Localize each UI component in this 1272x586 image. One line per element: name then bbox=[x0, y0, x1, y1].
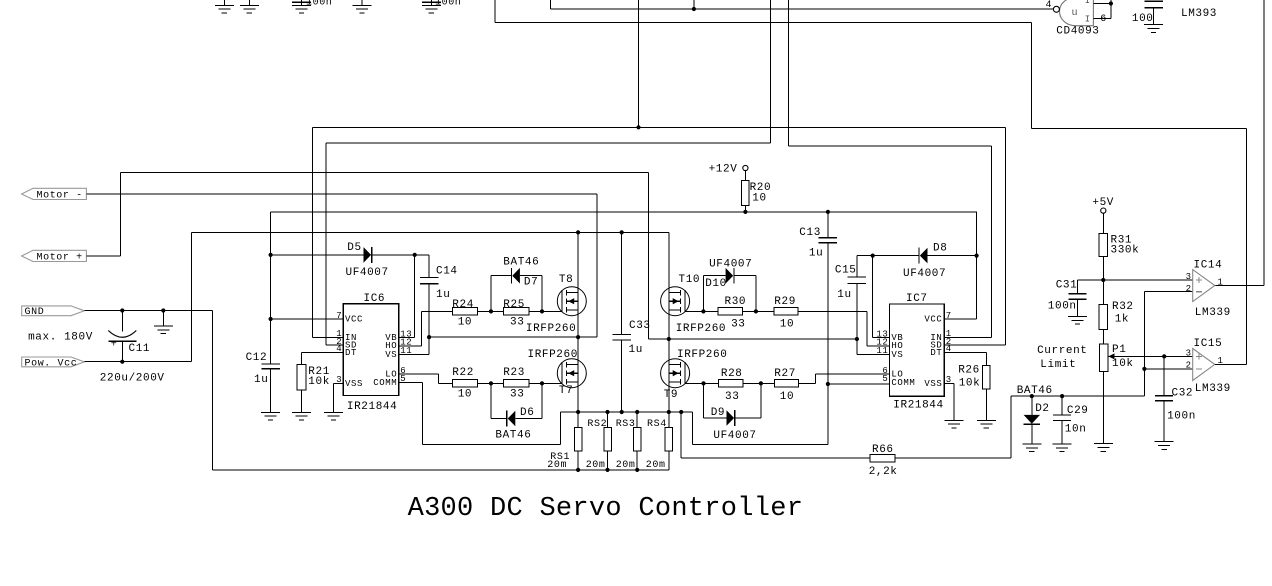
junction D2 top bbox=[1030, 394, 1034, 398]
label + of C11 bbox=[111, 340, 118, 351]
label T7 bbox=[559, 385, 573, 397]
wire IC7 DT to R26 bbox=[944, 352, 986, 365]
svg-text:100n: 100n bbox=[435, 0, 461, 8]
wire T10 gate to R30 bbox=[685, 310, 718, 312]
svg-text:R22: R22 bbox=[452, 367, 474, 379]
junction D10 right bbox=[754, 309, 758, 313]
wire IC6 VSS to ground bbox=[324, 383, 343, 420]
pin number 6 (gate input) bbox=[1100, 14, 1107, 25]
label UF4007 (D8) bbox=[903, 268, 946, 280]
svg-text:2,2k: 2,2k bbox=[869, 466, 898, 478]
label D6 bbox=[520, 407, 534, 419]
capacitor C11 electrolytic bbox=[108, 311, 136, 362]
resistor R27 bbox=[774, 380, 798, 387]
wire T8 drain bbox=[577, 232, 579, 292]
wire COMM right return bbox=[681, 412, 828, 444]
wire T10 source to rail bbox=[668, 310, 670, 339]
svg-text:VSS: VSS bbox=[345, 379, 363, 389]
label 100n top 3 bbox=[306, 0, 332, 8]
gate input marks I bbox=[1085, 0, 1090, 24]
diode D2 BAT46 bbox=[1022, 396, 1041, 452]
svg-text:R26: R26 bbox=[958, 364, 980, 376]
wire comparator output loop bbox=[495, 0, 1246, 364]
junction VB riser bbox=[413, 253, 417, 257]
svg-text:C31: C31 bbox=[1056, 279, 1078, 291]
IC14 pin numbers bbox=[1186, 272, 1224, 294]
svg-text:C12: C12 bbox=[246, 352, 268, 364]
svg-text:A300 DC Servo Controller: A300 DC Servo Controller bbox=[408, 494, 804, 524]
label R27 bbox=[774, 368, 796, 380]
svg-text:IC14: IC14 bbox=[1194, 259, 1223, 271]
wire D8 cathode side bbox=[857, 255, 919, 257]
label Motor + bbox=[37, 252, 83, 263]
label 20m (RS4) bbox=[646, 460, 666, 471]
capacitor C12 bbox=[261, 319, 280, 420]
label 20m (RS1) bbox=[547, 460, 567, 471]
label BAT46 (D2) bbox=[1017, 385, 1053, 397]
svg-text:2: 2 bbox=[1186, 284, 1192, 294]
gate inner label u bbox=[1072, 8, 1079, 19]
svg-text:R25: R25 bbox=[503, 299, 525, 311]
svg-text:VS: VS bbox=[891, 350, 903, 360]
wire divider to IC14+ bbox=[1103, 279, 1192, 281]
wire limit node riser bbox=[1143, 292, 1145, 396]
ground symbol top 2 bbox=[240, 0, 259, 13]
svg-text:IR21844: IR21844 bbox=[893, 400, 943, 412]
label IRFP260 (T8) bbox=[526, 323, 576, 335]
svg-text:1u: 1u bbox=[837, 289, 851, 301]
capacitor C29 bbox=[1053, 396, 1072, 452]
title text bbox=[408, 494, 804, 524]
svg-text:R28: R28 bbox=[721, 368, 743, 380]
label 33 (R25) bbox=[510, 317, 524, 329]
wire vertical from top to IN/SD rail bbox=[638, 0, 640, 127]
svg-text:T9: T9 bbox=[664, 389, 678, 401]
svg-text:1u: 1u bbox=[436, 289, 450, 301]
label C13 bbox=[799, 227, 821, 239]
resistor R25 bbox=[503, 308, 529, 315]
junction D10 left bbox=[701, 309, 705, 313]
label 1u (C13) bbox=[809, 247, 823, 259]
svg-text:1: 1 bbox=[1218, 277, 1224, 287]
label IRFP260 (T9) bbox=[677, 349, 727, 361]
transistor T9 IRFP260 bbox=[661, 359, 690, 388]
junction divider node bbox=[1101, 278, 1105, 282]
svg-text:IC6: IC6 bbox=[364, 293, 386, 305]
label R24 bbox=[452, 299, 474, 311]
junction IC7 COMM bbox=[826, 382, 830, 386]
label RS2 bbox=[587, 419, 607, 430]
label +5V bbox=[1092, 197, 1114, 209]
svg-text:IRFP260: IRFP260 bbox=[676, 323, 726, 335]
label 10k (R26) bbox=[959, 378, 981, 390]
svg-text:UF4007: UF4007 bbox=[709, 258, 752, 270]
resistor R20 bbox=[742, 171, 750, 212]
label R28 bbox=[721, 368, 743, 380]
svg-text:1u: 1u bbox=[629, 344, 643, 356]
wire IC14 output to top bbox=[1215, 0, 1264, 286]
label 33 (R30) bbox=[731, 318, 745, 330]
svg-text:UF4007: UF4007 bbox=[713, 430, 756, 442]
label P1 bbox=[1112, 344, 1126, 356]
svg-text:IRFP260: IRFP260 bbox=[528, 349, 578, 361]
IC6 pin names right bbox=[373, 333, 397, 388]
svg-text:3: 3 bbox=[1186, 272, 1192, 282]
svg-text:R30: R30 bbox=[725, 296, 747, 308]
wire IC6-IN to IC7-SD rail bbox=[312, 127, 1005, 345]
label UF4007 (D5) bbox=[346, 267, 389, 279]
terminal +5V bbox=[1101, 208, 1106, 213]
junction C14 to VS node bbox=[427, 335, 431, 339]
svg-text:UF4007: UF4007 bbox=[903, 268, 946, 280]
svg-text:R29: R29 bbox=[774, 296, 796, 308]
capacitor C15 bbox=[848, 256, 867, 339]
svg-text:C33: C33 bbox=[629, 320, 651, 332]
label 10 (R22) bbox=[458, 389, 472, 401]
label D10 bbox=[705, 278, 727, 290]
junction T8 drain bbox=[576, 230, 580, 234]
resistor R66 bbox=[870, 455, 895, 462]
svg-text:BAT46: BAT46 bbox=[503, 257, 539, 269]
resistor R22 bbox=[452, 380, 477, 387]
svg-text:VCC: VCC bbox=[345, 314, 363, 324]
gate U1 CD4093 (mirrored NAND) bbox=[1053, 0, 1093, 26]
resistor R21 bbox=[292, 364, 311, 420]
potentiometer P1 bbox=[1094, 344, 1193, 452]
label IC7 bbox=[906, 293, 928, 305]
resistor RS3 bbox=[633, 412, 641, 470]
svg-text:T8: T8 bbox=[559, 274, 573, 286]
svg-text:1k: 1k bbox=[1115, 313, 1129, 325]
svg-text:RS2: RS2 bbox=[587, 419, 607, 430]
label R23 bbox=[503, 367, 525, 379]
wire IC6 LO bbox=[399, 374, 453, 383]
label 330k (R31) bbox=[1111, 245, 1140, 257]
diode D9 UF4007 branch bbox=[704, 383, 761, 426]
svg-text:Pow. Vcc: Pow. Vcc bbox=[25, 358, 78, 369]
label RS1 bbox=[550, 452, 570, 463]
svg-text:max. 180V: max. 180V bbox=[28, 332, 93, 344]
svg-text:33: 33 bbox=[510, 317, 524, 329]
wire R66 to limit node bbox=[895, 396, 1144, 458]
label 1u (C14) bbox=[436, 289, 450, 301]
junction sense to R66 bbox=[679, 410, 683, 414]
svg-text:20m: 20m bbox=[586, 460, 606, 471]
wire IC7 VSS to ground bbox=[944, 383, 963, 428]
label 20m (RS2) bbox=[586, 460, 606, 471]
svg-text:Motor +: Motor + bbox=[37, 252, 83, 263]
label LM393 bbox=[1181, 8, 1217, 20]
junction RS3 bottom bbox=[635, 468, 639, 472]
capacitor plate + ground top 3 bbox=[292, 0, 311, 13]
diode D6 BAT46 branch bbox=[491, 383, 542, 426]
svg-text:D7: D7 bbox=[524, 276, 538, 288]
svg-text:33: 33 bbox=[731, 318, 745, 330]
junction RS2 top bbox=[605, 410, 609, 414]
junction D6 left bbox=[489, 381, 493, 385]
label C32 bbox=[1172, 387, 1194, 399]
svg-text:D6: D6 bbox=[520, 407, 534, 419]
resistor R24 bbox=[452, 308, 477, 315]
junction RS2 bottom bbox=[605, 468, 609, 472]
transistor T7 IRFP260 bbox=[557, 359, 586, 388]
label D9 bbox=[711, 407, 725, 419]
svg-text:CD4093: CD4093 bbox=[1056, 26, 1099, 38]
resistor R26 bbox=[977, 366, 996, 428]
wire IC15 minus bbox=[1144, 368, 1192, 370]
wire right switch rail bbox=[669, 338, 857, 340]
resistor RS4 bbox=[665, 412, 673, 470]
svg-text:GND: GND bbox=[25, 307, 45, 318]
label UF4007 (D10) bbox=[709, 258, 752, 270]
label R26 bbox=[958, 364, 980, 376]
label GND bbox=[25, 307, 45, 318]
svg-text:C32: C32 bbox=[1172, 387, 1194, 399]
junction D9 left bbox=[701, 381, 705, 385]
terminal +12V bbox=[743, 165, 748, 170]
wire VB riser IC7 bbox=[873, 256, 890, 338]
label IR21844 (IC7) bbox=[893, 400, 943, 412]
connector Motor + bbox=[22, 250, 87, 261]
svg-text:C14: C14 bbox=[436, 265, 458, 277]
svg-text:BAT46: BAT46 bbox=[495, 429, 531, 441]
capacitor plate + ground top 5 bbox=[422, 0, 441, 13]
svg-text:100n: 100n bbox=[1048, 301, 1077, 313]
wire T8 source to rail bbox=[577, 310, 579, 337]
junction C33 bottom bbox=[620, 410, 624, 414]
svg-text:LM339: LM339 bbox=[1195, 307, 1231, 319]
label CD4093 bbox=[1056, 26, 1099, 38]
label 100 bbox=[1132, 13, 1154, 25]
label C12 bbox=[246, 352, 268, 364]
wire R29 to IC7 HO bbox=[798, 311, 889, 345]
capacitor C13 bbox=[819, 212, 838, 445]
junction D7 right bbox=[540, 309, 544, 313]
svg-text:COMM: COMM bbox=[373, 378, 397, 388]
wire R25 to T8 gate bbox=[529, 310, 562, 312]
IC6 pin names left bbox=[345, 314, 363, 388]
svg-text:10: 10 bbox=[780, 391, 794, 403]
svg-text:4: 4 bbox=[1046, 0, 1053, 11]
junction IC15 minus bbox=[1142, 367, 1146, 371]
label RS3 bbox=[616, 419, 636, 430]
label Motor - bbox=[37, 190, 83, 201]
label R31 bbox=[1111, 234, 1133, 246]
wire IC7 VCC bbox=[944, 318, 976, 320]
label 1u (C15) bbox=[837, 289, 851, 301]
label IC6 bbox=[364, 293, 386, 305]
svg-text:20m: 20m bbox=[547, 460, 567, 471]
svg-text:VCC: VCC bbox=[924, 314, 942, 324]
svg-text:D5: D5 bbox=[347, 242, 361, 254]
svg-text:DT: DT bbox=[930, 348, 942, 358]
label R22 bbox=[452, 367, 474, 379]
svg-text:BAT46: BAT46 bbox=[1017, 385, 1053, 397]
svg-text:IR21844: IR21844 bbox=[347, 401, 397, 413]
connector Motor - bbox=[22, 188, 87, 199]
IC7 pin numbers right bbox=[946, 311, 952, 385]
junction T10 source bbox=[667, 337, 671, 341]
svg-text:D9: D9 bbox=[711, 407, 725, 419]
wire T7 drain bbox=[577, 337, 579, 364]
svg-text:IRFP260: IRFP260 bbox=[677, 349, 727, 361]
resistor RS1 bbox=[574, 412, 582, 470]
junction gate input tie bbox=[1109, 1, 1113, 5]
svg-text:100: 100 bbox=[1132, 13, 1154, 25]
svg-text:R32: R32 bbox=[1112, 301, 1134, 313]
label C33 bbox=[629, 320, 651, 332]
wire IC6 DT to R21 bbox=[301, 352, 343, 364]
svg-text:VSS: VSS bbox=[924, 379, 942, 389]
capacitor C14 bbox=[420, 255, 439, 337]
svg-text:R66: R66 bbox=[872, 444, 894, 456]
svg-text:LM393: LM393 bbox=[1181, 8, 1217, 20]
label R20 bbox=[750, 182, 772, 194]
wire sense bottom rail (GND) bbox=[213, 469, 669, 471]
svg-text:I: I bbox=[1085, 0, 1090, 6]
wire R30 to R29 bbox=[743, 310, 774, 312]
label C11 bbox=[129, 343, 151, 355]
label R30 bbox=[725, 296, 747, 308]
svg-text:D8: D8 bbox=[933, 243, 947, 255]
wire IC6-SD rail bbox=[326, 0, 770, 345]
ground at GND rail bbox=[154, 311, 173, 334]
wire R22 to R23 bbox=[478, 382, 504, 384]
wire IC6 VS bbox=[399, 337, 429, 354]
resistor R30 bbox=[718, 308, 742, 315]
wire D5 anode bbox=[271, 254, 364, 256]
label BAT46 (D6) bbox=[495, 429, 531, 441]
wire HV+ rail bbox=[192, 231, 669, 233]
label Current bbox=[1037, 345, 1087, 357]
wire gate output rail bbox=[550, 0, 1053, 9]
svg-text:10n: 10n bbox=[1065, 423, 1087, 435]
label 10n (C29) bbox=[1065, 423, 1087, 435]
label max. 180V bbox=[28, 332, 93, 344]
diode D10 UF4007 branch bbox=[703, 268, 756, 312]
svg-text:100n: 100n bbox=[306, 0, 332, 8]
op-amp IC14 LM339 bbox=[1193, 270, 1215, 302]
wire sense node to R66 bbox=[681, 412, 870, 458]
IC7 pin names right bbox=[924, 314, 942, 388]
wire IC14 minus bbox=[1144, 291, 1192, 293]
IC7 pin names left bbox=[891, 333, 915, 388]
connector GND bbox=[22, 306, 85, 316]
junction D9 right bbox=[759, 381, 763, 385]
wire R28 to R27 bbox=[743, 382, 775, 384]
svg-text:C29: C29 bbox=[1067, 405, 1089, 417]
svg-text:5: 5 bbox=[882, 374, 888, 384]
junction on IN/SD rail bbox=[636, 125, 640, 129]
label 10 (R27) bbox=[780, 391, 794, 403]
label 2,2k (R66) bbox=[869, 466, 898, 478]
svg-text:20m: 20m bbox=[616, 460, 636, 471]
svg-text:10: 10 bbox=[458, 389, 472, 401]
label D8 bbox=[933, 243, 947, 255]
junction D8 anode bbox=[975, 254, 979, 258]
label 100n (C31) bbox=[1048, 301, 1077, 313]
junction RS4 top bbox=[667, 410, 671, 414]
svg-text:u: u bbox=[1072, 8, 1079, 19]
wire Pow.Vcc rail bbox=[84, 232, 191, 361]
label 1u (C12) bbox=[254, 374, 268, 386]
svg-text:3: 3 bbox=[1186, 349, 1192, 359]
junction C13 top bbox=[826, 210, 830, 214]
wire IC7-IN rail bbox=[788, 0, 991, 337]
capacitor C32 bbox=[1155, 356, 1174, 449]
wire Motor + to bridge bbox=[86, 172, 668, 339]
label C15 bbox=[835, 265, 857, 277]
wire +12V rail bbox=[271, 212, 977, 319]
pin number 4 (gate output) bbox=[1046, 0, 1053, 11]
svg-text:VS: VS bbox=[385, 350, 397, 360]
label 100n top 5 bbox=[435, 0, 461, 8]
label UF4007 (D9) bbox=[713, 430, 756, 442]
svg-text:10: 10 bbox=[780, 318, 794, 330]
svg-text:2: 2 bbox=[1186, 360, 1192, 370]
IC IC7 box bbox=[889, 304, 944, 396]
label RS4 bbox=[647, 419, 667, 430]
label IRFP260 (T10) bbox=[676, 323, 726, 335]
wire R23 to T7 gate bbox=[529, 382, 562, 384]
svg-text:10k: 10k bbox=[308, 376, 330, 388]
IC15 pin numbers bbox=[1186, 349, 1224, 371]
svg-text:+: + bbox=[111, 340, 118, 351]
junction C11 bottom bbox=[120, 360, 124, 364]
svg-text:RS4: RS4 bbox=[647, 419, 667, 430]
label C14 bbox=[436, 265, 458, 277]
label R29 bbox=[774, 296, 796, 308]
label T10 bbox=[679, 274, 701, 286]
junction T8 source bbox=[576, 335, 580, 339]
IC6 pin numbers right bbox=[400, 329, 412, 384]
IC6 pin numbers left bbox=[336, 311, 342, 385]
svg-text:C13: C13 bbox=[799, 227, 821, 239]
label Limit bbox=[1040, 359, 1076, 371]
transistor T10 IRFP260 bbox=[661, 287, 690, 316]
svg-text:33: 33 bbox=[510, 389, 524, 401]
wire D5 cathode to C14 bbox=[372, 254, 429, 256]
diode D8 UF4007 bbox=[919, 248, 928, 264]
label 33 (R28) bbox=[725, 391, 739, 403]
svg-text:Motor -: Motor - bbox=[37, 190, 83, 201]
svg-text:1u: 1u bbox=[809, 247, 823, 259]
wire R27 to IC7 LO bbox=[799, 374, 890, 383]
svg-text:D2: D2 bbox=[1035, 403, 1049, 415]
svg-text:IRFP260: IRFP260 bbox=[526, 323, 576, 335]
resistor R32 bbox=[1099, 280, 1108, 344]
junction D5 anode node bbox=[269, 253, 273, 257]
wire IC6 HO bbox=[399, 311, 453, 345]
svg-text:10: 10 bbox=[752, 192, 766, 204]
junction C15 to VS node bbox=[855, 337, 859, 341]
wire R24 to R25 bbox=[478, 310, 504, 312]
wire D8 anode to +12V bbox=[928, 212, 977, 319]
svg-text:T10: T10 bbox=[679, 274, 701, 286]
label R25 bbox=[503, 299, 525, 311]
junction C11 top bbox=[120, 308, 124, 312]
label 10 (R24) bbox=[458, 317, 472, 329]
node junction on gate output rail bbox=[692, 7, 696, 11]
label IR21844 (IC6) bbox=[347, 401, 397, 413]
label C31 bbox=[1056, 279, 1078, 291]
label LM339 (IC14) bbox=[1195, 307, 1231, 319]
wire Motor - to bridge bbox=[86, 194, 597, 337]
wire T9 gate to R28 bbox=[685, 382, 719, 384]
label R21 bbox=[308, 366, 330, 378]
label +12V bbox=[709, 164, 738, 176]
svg-text:DT: DT bbox=[345, 348, 357, 358]
